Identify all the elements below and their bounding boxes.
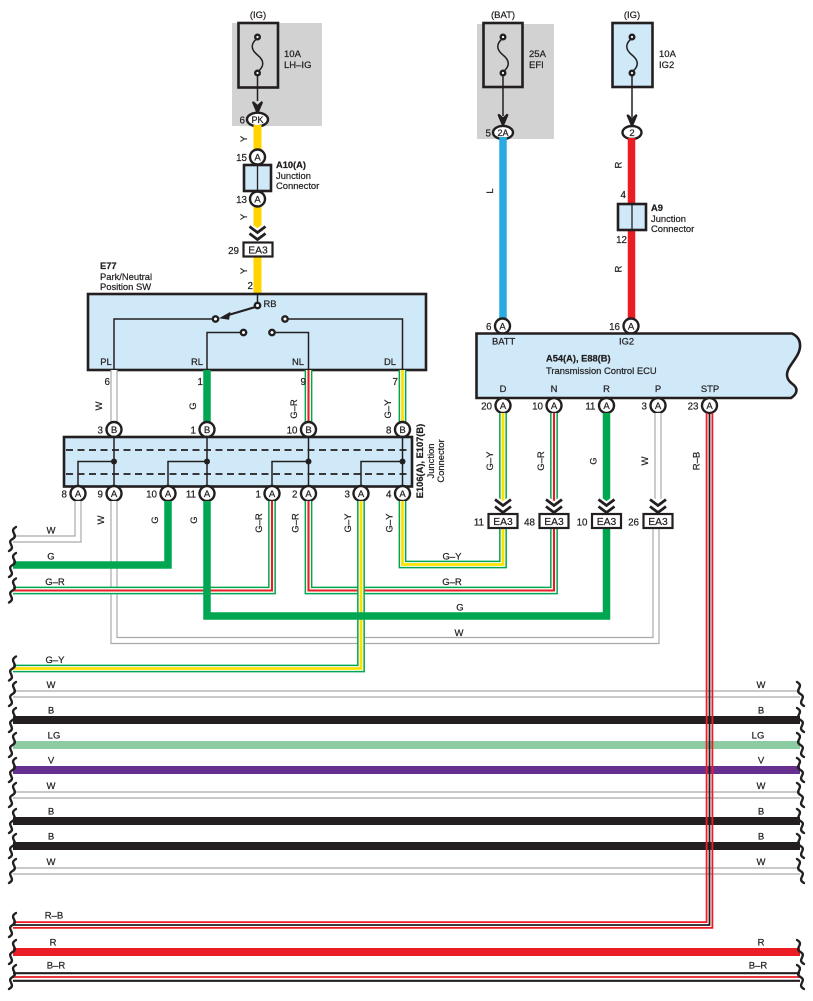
wire RB stub <box>257 294 259 303</box>
EA3 box 29 <box>228 243 272 293</box>
svg-text:1: 1 <box>256 490 261 501</box>
svg-text:A: A <box>305 489 312 500</box>
svg-text:R: R <box>758 938 765 949</box>
svg-text:A: A <box>628 322 635 333</box>
E77 internal switch <box>100 294 402 370</box>
break symbol W left <box>9 527 16 551</box>
svg-text:W: W <box>94 401 105 410</box>
svg-text:11: 11 <box>585 402 595 413</box>
svg-text:D: D <box>500 383 507 394</box>
wire DL contact arm <box>288 319 403 370</box>
contact NL <box>269 330 274 335</box>
svg-text:A: A <box>499 322 506 333</box>
svg-text:R: R <box>50 938 57 949</box>
svg-text:R: R <box>614 161 625 168</box>
svg-text:13: 13 <box>236 195 247 206</box>
bus wire W 3 <box>13 857 800 871</box>
svg-text:2: 2 <box>629 128 634 139</box>
fuse block background (BAT) EFI <box>477 24 554 139</box>
svg-text:A: A <box>551 401 558 412</box>
break symbol left W bus 2 <box>9 783 16 807</box>
svg-text:A10(A): A10(A) <box>276 160 306 170</box>
svg-text:EA3: EA3 <box>597 517 617 528</box>
wire NL contact arm <box>275 333 309 371</box>
svg-text:B: B <box>111 425 117 436</box>
svg-text:12: 12 <box>616 235 627 246</box>
svg-text:G: G <box>150 516 161 523</box>
svg-text:7: 7 <box>393 377 398 388</box>
wire G-R (ECU N to EA3 48) <box>536 413 554 516</box>
ECU pin 23 STP <box>688 398 717 413</box>
break symbol right W bus 3 <box>797 859 804 883</box>
svg-text:Position SW: Position SW <box>100 281 151 292</box>
svg-text:V: V <box>758 756 765 767</box>
bus wire V <box>13 756 800 771</box>
svg-text:G–R: G–R <box>254 513 265 533</box>
svg-text:B: B <box>204 425 210 436</box>
svg-text:Y: Y <box>239 213 250 220</box>
break symbol right B bus 3 <box>797 834 804 858</box>
svg-text:G–Y: G–Y <box>45 655 65 666</box>
svg-text:A: A <box>399 489 406 500</box>
chevron into EA3 (29) <box>250 227 266 240</box>
junction internal 1B-11A/10A <box>168 437 210 486</box>
ECU pin 11 R <box>585 398 614 413</box>
wire R (fuse IG2 to ECU IG2) <box>614 138 632 320</box>
ECU pin 3 P <box>642 398 666 413</box>
svg-text:A: A <box>75 489 82 500</box>
break symbol G-R left <box>9 579 16 603</box>
contact RL <box>241 330 246 335</box>
break symbol left W bus 1 <box>9 682 16 706</box>
svg-text:Connector: Connector <box>435 439 446 482</box>
pin 11A <box>186 486 215 501</box>
svg-text:L: L <box>485 188 496 193</box>
break symbol right R bus <box>797 940 804 964</box>
svg-text:6: 6 <box>486 322 492 333</box>
svg-text:EA3: EA3 <box>544 517 564 528</box>
wire G (E77 RL to junction 1B) <box>188 370 207 423</box>
wire W (9A to EA3 26, via bottom run) <box>96 501 656 641</box>
connector pin 6 PK <box>240 113 268 127</box>
svg-text:A: A <box>111 489 118 500</box>
svg-text:IG2: IG2 <box>619 336 634 347</box>
svg-text:EFI: EFI <box>529 60 544 71</box>
break symbol left B-R bus <box>9 965 16 989</box>
svg-text:3: 3 <box>345 490 351 501</box>
svg-text:B: B <box>758 807 764 818</box>
wire W (E77 PL to junction 3B) <box>94 370 114 423</box>
svg-text:4: 4 <box>386 490 392 501</box>
svg-text:10: 10 <box>577 518 588 529</box>
svg-text:11: 11 <box>186 490 196 501</box>
svg-text:LH–IG: LH–IG <box>284 60 311 71</box>
pin 8B <box>386 422 410 437</box>
svg-text:A: A <box>655 401 662 412</box>
break symbol left W bus 3 <box>9 859 16 883</box>
pin 1A <box>256 486 280 501</box>
svg-text:(IG): (IG) <box>250 10 266 21</box>
EA3 box 10 <box>577 514 621 529</box>
svg-text:R: R <box>603 383 610 394</box>
break symbol left LG bus <box>9 733 16 757</box>
break symbol right B bus 2 <box>797 809 804 833</box>
fuse block background (IG) LH-IG <box>232 23 322 126</box>
chevron into EA3 48 <box>546 500 562 513</box>
svg-text:25A: 25A <box>529 49 547 60</box>
svg-text:3: 3 <box>642 402 648 413</box>
svg-text:V: V <box>48 756 55 767</box>
fuse 25A EFI <box>484 10 547 125</box>
wire G (11A to EA3 10) <box>189 501 607 639</box>
pin 9A <box>98 486 122 501</box>
svg-text:48: 48 <box>524 518 535 529</box>
pin 10A <box>146 486 175 501</box>
svg-text:11: 11 <box>474 518 484 529</box>
bus wire B-R <box>13 961 800 981</box>
svg-text:Connector: Connector <box>651 223 694 234</box>
svg-text:9: 9 <box>98 490 103 501</box>
break symbol left R bus <box>9 940 16 964</box>
svg-text:5: 5 <box>486 129 492 140</box>
svg-text:G: G <box>188 402 199 409</box>
EA3 box 26 <box>628 514 672 529</box>
wire PL contact arm <box>114 319 213 370</box>
switch wiper RB <box>225 307 256 316</box>
svg-text:W: W <box>47 680 56 691</box>
svg-text:1: 1 <box>198 377 203 388</box>
svg-text:A9: A9 <box>651 203 663 213</box>
junction internal 10B-2A/1A <box>272 437 312 486</box>
break symbol right V bus <box>797 758 804 782</box>
svg-text:G–Y: G–Y <box>343 513 354 533</box>
svg-text:EA3: EA3 <box>248 246 268 257</box>
svg-text:R–B: R–B <box>692 452 703 470</box>
svg-text:B: B <box>48 706 54 717</box>
wire G-R (1A to left break) <box>13 501 272 591</box>
svg-text:W: W <box>757 680 766 691</box>
svg-text:10: 10 <box>287 426 298 437</box>
svg-text:R: R <box>614 265 625 272</box>
svg-text:26: 26 <box>628 518 639 529</box>
wire G-Y (3A to left break) <box>13 501 361 669</box>
ECU pin 6 BATT <box>486 319 510 334</box>
bus wire LG <box>13 731 800 746</box>
svg-text:15: 15 <box>236 153 247 164</box>
svg-text:EA3: EA3 <box>493 517 513 528</box>
svg-text:10: 10 <box>146 490 157 501</box>
chevron into EA3 11 <box>495 500 511 513</box>
svg-text:G–Y: G–Y <box>385 513 396 533</box>
svg-text:W: W <box>757 857 766 868</box>
contact PL <box>213 316 218 321</box>
svg-text:G: G <box>456 603 463 614</box>
svg-text:10A: 10A <box>659 49 677 60</box>
svg-text:A: A <box>165 489 172 500</box>
svg-text:G–Y: G–Y <box>485 451 496 471</box>
svg-text:A: A <box>269 489 276 500</box>
svg-text:A: A <box>500 401 507 412</box>
svg-text:8: 8 <box>386 426 392 437</box>
svg-text:STP: STP <box>701 383 719 394</box>
junction internal 3B-9A/8A <box>78 437 117 486</box>
svg-text:3: 3 <box>98 426 104 437</box>
ECU A54(A) E88(B) Transmission Control ECU <box>477 334 801 399</box>
junction connector A9 <box>614 203 695 272</box>
svg-text:23: 23 <box>688 402 699 413</box>
svg-text:DL: DL <box>384 356 396 367</box>
svg-text:A54(A), E88(B): A54(A), E88(B) <box>546 354 611 364</box>
fuse 10A LH-IG <box>239 10 312 113</box>
svg-text:6: 6 <box>105 377 111 388</box>
svg-text:W: W <box>47 857 56 868</box>
svg-text:LG: LG <box>48 731 61 742</box>
pin 8A <box>62 486 86 501</box>
chevron into EA3 10 <box>599 500 615 513</box>
svg-text:1: 1 <box>191 426 196 437</box>
wire R-B (ECU STP to left break) <box>13 413 712 928</box>
svg-text:G–Y: G–Y <box>383 399 394 419</box>
svg-text:B: B <box>48 807 54 818</box>
svg-text:B: B <box>48 832 54 843</box>
svg-text:A: A <box>706 401 713 412</box>
svg-text:B: B <box>758 706 764 717</box>
svg-text:20: 20 <box>481 402 492 413</box>
svg-text:10A: 10A <box>284 49 302 60</box>
svg-text:G: G <box>589 457 600 464</box>
wire G (10A to left break) <box>13 501 168 565</box>
break symbol right LG bus <box>797 733 804 757</box>
svg-text:8: 8 <box>62 490 68 501</box>
break symbol right W bus 1 <box>797 682 804 706</box>
svg-text:Y: Y <box>239 135 250 142</box>
svg-text:LG: LG <box>752 731 765 742</box>
svg-text:2: 2 <box>248 281 253 292</box>
svg-text:NL: NL <box>292 356 304 367</box>
bus wire B 2 <box>13 807 800 822</box>
svg-text:BATT: BATT <box>492 336 516 347</box>
svg-text:A: A <box>358 489 365 500</box>
svg-text:G: G <box>189 516 200 523</box>
svg-text:B: B <box>758 832 764 843</box>
svg-text:G: G <box>47 552 54 563</box>
svg-text:W: W <box>640 456 651 465</box>
bus wire B 1 <box>13 706 800 721</box>
contact DL <box>282 316 287 321</box>
svg-text:R–B: R–B <box>45 911 63 922</box>
break symbol left B bus 1 <box>9 708 16 732</box>
pin 10B <box>287 422 316 437</box>
break symbol G-Y left <box>9 657 16 681</box>
ECU pin 10 N <box>532 398 561 413</box>
svg-text:2: 2 <box>292 490 297 501</box>
svg-text:B: B <box>399 425 405 436</box>
junction connector A10(A) <box>236 150 319 207</box>
break symbol G left <box>9 553 16 577</box>
svg-text:B: B <box>305 425 311 436</box>
pin 1B <box>191 422 215 437</box>
pin 3A <box>345 486 369 501</box>
wire RL contact arm <box>207 333 241 371</box>
wire G-Y (ECU D to EA3 11) <box>485 413 503 516</box>
svg-text:A: A <box>603 401 610 412</box>
wire W (ECU P to EA3 26) <box>640 413 658 516</box>
svg-text:29: 29 <box>228 246 239 257</box>
svg-text:9: 9 <box>301 377 306 388</box>
break symbol left R-B wire <box>9 913 16 937</box>
wire L (fuse EFI to ECU BATT) <box>485 137 503 320</box>
wire G-Y (E77 DL to junction 8B) <box>383 370 403 423</box>
bus wire B 3 <box>13 832 800 847</box>
fuse 10A IG2 <box>613 10 677 126</box>
bus wire R <box>13 938 800 953</box>
svg-text:W: W <box>757 781 766 792</box>
svg-text:G–R: G–R <box>536 451 547 471</box>
svg-text:Connector: Connector <box>276 180 319 191</box>
svg-text:2A: 2A <box>497 128 508 138</box>
EA3 box 11 <box>474 514 518 529</box>
svg-text:RL: RL <box>191 356 203 367</box>
wire G-Y (4A to EA3 11) <box>385 501 504 565</box>
svg-text:(BAT): (BAT) <box>491 10 515 21</box>
svg-text:(IG): (IG) <box>624 10 640 21</box>
svg-text:A: A <box>254 195 261 206</box>
pin 3B <box>98 422 122 437</box>
junction connector E106(A) E107(B) <box>64 424 446 498</box>
svg-text:IG2: IG2 <box>659 60 674 71</box>
svg-text:6: 6 <box>240 116 246 127</box>
svg-text:N: N <box>551 383 558 394</box>
junction internal 8B-4A/3A <box>361 437 406 486</box>
svg-text:16: 16 <box>609 322 620 333</box>
svg-text:EA3: EA3 <box>648 517 668 528</box>
svg-text:Y: Y <box>239 267 250 274</box>
ECU pin 20 D <box>481 398 510 413</box>
bus wire W 2 <box>13 781 800 795</box>
wire G-R (2A to EA3 48) <box>291 501 555 591</box>
svg-text:A: A <box>254 153 261 164</box>
svg-text:G–R: G–R <box>291 513 302 533</box>
pin 2A <box>292 486 316 501</box>
svg-text:10: 10 <box>532 402 543 413</box>
wire G-R (E77 NL to junction 10B) <box>289 370 309 423</box>
connector pin 5 2A <box>486 126 513 140</box>
bus wire W 1 <box>13 680 800 694</box>
break symbol left B bus 3 <box>9 834 16 858</box>
svg-text:A: A <box>204 489 211 500</box>
wire W (8A to left break) <box>13 501 78 539</box>
svg-text:PK: PK <box>251 115 263 125</box>
EA3 box 48 <box>524 514 568 529</box>
break symbol left V bus <box>9 758 16 782</box>
ECU pin 16 IG2 <box>609 319 638 334</box>
svg-text:RB: RB <box>264 298 277 309</box>
connector pin 2 <box>623 126 642 139</box>
break symbol right B bus 1 <box>797 708 804 732</box>
chevron into EA3 26 <box>650 500 666 513</box>
wire G (ECU R to EA3 10) <box>589 413 607 516</box>
svg-text:PL: PL <box>100 356 111 367</box>
svg-text:G–R: G–R <box>442 577 462 588</box>
svg-text:B–R: B–R <box>47 961 66 972</box>
svg-text:G–R: G–R <box>289 399 300 419</box>
svg-text:E106(A), E107(B): E106(A), E107(B) <box>415 424 425 498</box>
wire Y (fuse LH-IG to E77 pin 2) <box>239 125 258 294</box>
svg-text:W: W <box>47 526 56 537</box>
break symbol right W bus 2 <box>797 783 804 807</box>
svg-text:P: P <box>655 383 661 394</box>
svg-text:W: W <box>96 515 107 524</box>
svg-text:4: 4 <box>621 190 627 201</box>
break symbol right B-R bus <box>797 965 804 989</box>
break symbol left B bus 2 <box>9 809 16 833</box>
svg-text:W: W <box>47 781 56 792</box>
pin 4A <box>386 486 410 501</box>
svg-text:E77: E77 <box>100 261 117 271</box>
E77 Park/Neutral Position SW <box>88 261 426 370</box>
svg-text:G–Y: G–Y <box>442 552 462 563</box>
svg-text:G–R: G–R <box>45 577 65 588</box>
svg-text:Transmission Control ECU: Transmission Control ECU <box>546 365 657 376</box>
svg-text:B–R: B–R <box>749 961 768 972</box>
svg-text:W: W <box>455 628 464 639</box>
